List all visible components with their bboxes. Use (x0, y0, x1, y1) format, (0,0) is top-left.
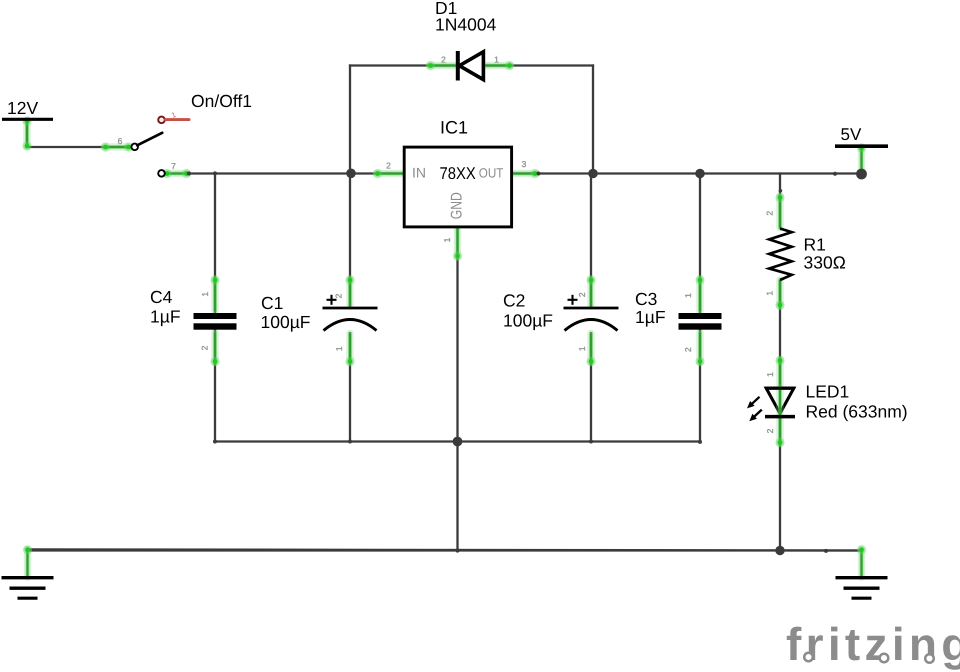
svg-text:1µF: 1µF (150, 306, 181, 326)
svg-text:6: 6 (118, 136, 123, 146)
svg-text:C2: C2 (503, 290, 525, 310)
svg-text:IC1: IC1 (440, 118, 468, 138)
svg-text:100µF: 100µF (261, 312, 311, 332)
svg-text:2: 2 (765, 211, 775, 216)
svg-text:C1: C1 (261, 293, 283, 313)
svg-text:330Ω: 330Ω (804, 252, 846, 272)
svg-text:On/Off1: On/Off1 (191, 91, 252, 111)
svg-text:GND: GND (449, 192, 466, 219)
svg-text:1: 1 (765, 291, 775, 296)
svg-text:1: 1 (494, 54, 499, 64)
svg-text:2: 2 (577, 292, 587, 297)
svg-text:C4: C4 (150, 287, 173, 307)
svg-text:fritzing: fritzing (786, 618, 960, 670)
svg-text:LED1: LED1 (806, 382, 850, 402)
svg-text:2: 2 (683, 347, 693, 352)
svg-text:2: 2 (765, 428, 775, 433)
svg-text:5V: 5V (841, 125, 862, 144)
svg-text:OUT: OUT (479, 166, 504, 181)
svg-text:2: 2 (386, 161, 391, 171)
svg-text:1: 1 (577, 346, 587, 351)
svg-text:Red (633nm): Red (633nm) (806, 402, 908, 422)
svg-text:1: 1 (683, 293, 693, 298)
svg-text:2: 2 (441, 54, 446, 64)
svg-text:2: 2 (334, 293, 344, 298)
svg-text:1N4004: 1N4004 (435, 15, 497, 35)
svg-text:IN: IN (412, 165, 426, 181)
svg-text:C3: C3 (635, 289, 657, 309)
svg-text:1: 1 (200, 292, 210, 297)
svg-text:1: 1 (765, 372, 775, 377)
svg-text:1: 1 (442, 237, 452, 242)
svg-text:78XX: 78XX (440, 164, 476, 183)
svg-text:12V: 12V (7, 98, 38, 118)
svg-text:2: 2 (200, 345, 210, 350)
svg-text:100µF: 100µF (503, 311, 553, 331)
svg-text:1µF: 1µF (635, 307, 666, 327)
svg-text:7: 7 (171, 161, 176, 171)
svg-text:1: 1 (334, 346, 344, 351)
svg-text:3: 3 (522, 159, 527, 169)
